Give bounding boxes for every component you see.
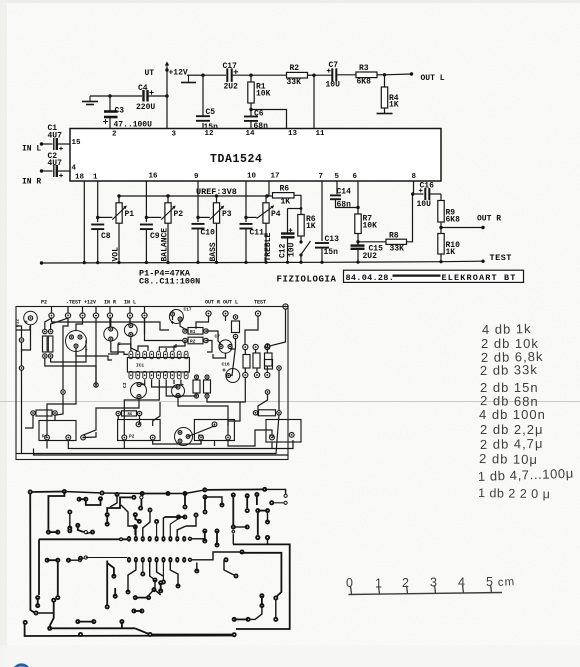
resistor R6 horizontal 1K bbox=[269, 195, 273, 197]
pcb2 pad row left mid2 bbox=[45, 558, 50, 563]
pcb2 trace K bbox=[57, 563, 59, 596]
svg-text:BASS: BASS bbox=[209, 242, 218, 261]
pcb1 pot P1 bbox=[39, 421, 76, 441]
wire ground to C3 node bbox=[90, 95, 110, 97]
wire R6 to R6 vertical bbox=[294, 195, 301, 214]
pcb2 bottom left pad bbox=[23, 620, 28, 625]
svg-text:4 db 100n: 4 db 100n bbox=[479, 407, 546, 422]
svg-text:OUT R: OUT R bbox=[205, 300, 220, 306]
wire P4 wiper tap bbox=[246, 216, 257, 218]
pcb2 extra pads C bbox=[67, 526, 72, 531]
wire pin 5 branch bbox=[336, 181, 338, 194]
svg-text:C5: C5 bbox=[206, 108, 216, 117]
pcb2 top mid pads bbox=[140, 491, 145, 496]
node R7 bottom bbox=[356, 240, 359, 243]
wire +12V vertical to pin 3 bbox=[166, 70, 168, 129]
pcb1 R5 part bbox=[122, 411, 137, 416]
pcb2 corner trace Q bbox=[50, 600, 54, 626]
svg-text:11: 11 bbox=[316, 130, 326, 138]
pcb1 cap can C1 bbox=[104, 327, 118, 341]
paper edge shading bbox=[0, 0, 7, 667]
capacitor C14 68n bbox=[330, 194, 341, 196]
pcb1 cap can C16 bbox=[226, 369, 240, 383]
svg-text:BALANCE: BALANCE bbox=[161, 228, 170, 262]
faint scanner fold line bbox=[0, 401, 580, 403]
svg-text:3: 3 bbox=[430, 576, 438, 590]
pcb2 pads X bbox=[158, 580, 163, 585]
wire pin 1 branch bbox=[97, 181, 99, 222]
svg-text:IN R: IN R bbox=[22, 178, 41, 187]
svg-text:OUT L: OUT L bbox=[421, 74, 445, 83]
svg-text:TREBLE: TREBLE bbox=[264, 232, 273, 261]
pcb2 outer ground trace bbox=[30, 491, 64, 494]
wire +12V to C5 node bbox=[187, 74, 203, 76]
pcb1 vertical part right bbox=[265, 360, 273, 370]
svg-text:17: 17 bbox=[271, 173, 280, 181]
pcb2 pads U bbox=[131, 609, 136, 614]
pcb1 pad row B bbox=[243, 372, 248, 377]
pcb2 pad S bbox=[78, 632, 83, 637]
pcb2 pad L bbox=[55, 595, 60, 600]
pcb2 pad P bbox=[111, 574, 116, 579]
potentiometer P3 bbox=[216, 196, 218, 203]
svg-text:3: 3 bbox=[172, 131, 177, 139]
pcb2 pad C bbox=[98, 496, 103, 501]
wire pin 18 to ground bus bbox=[83, 181, 85, 262]
svg-text:C3: C3 bbox=[122, 382, 128, 388]
svg-text:15: 15 bbox=[72, 139, 82, 147]
pcb2 top right trace bbox=[205, 488, 265, 491]
pcb2 pads M bbox=[35, 595, 40, 600]
pcb2 extra trace K bbox=[36, 612, 54, 614]
svg-text:+12V: +12V bbox=[84, 300, 96, 306]
pcb1 extra traces bbox=[16, 326, 30, 330]
pcb1 transistor can D bbox=[175, 428, 193, 446]
pcb1 traces bbox=[52, 318, 170, 330]
op-amp IC TDA1524 body bbox=[70, 129, 441, 182]
pcb1 cap can C3 bbox=[131, 383, 147, 399]
svg-text:1 db 2 2 0 μ: 1 db 2 2 0 μ bbox=[478, 486, 551, 501]
pcb1 capacitor C12 can bbox=[24, 311, 38, 325]
svg-text:2U2: 2U2 bbox=[363, 252, 378, 261]
pcb2 pads pair B bbox=[77, 497, 82, 502]
supply node UT +12V bbox=[165, 68, 168, 71]
svg-text:18: 18 bbox=[75, 174, 85, 182]
svg-text:OUT R: OUT R bbox=[477, 215, 501, 224]
svg-text:4U7: 4U7 bbox=[48, 132, 63, 141]
svg-text:P2: P2 bbox=[129, 434, 135, 440]
pcb2 extra trace J bbox=[232, 534, 234, 545]
svg-text:84.04.28.: 84.04.28. bbox=[346, 273, 395, 283]
wire P2 wiper tap bbox=[146, 216, 161, 218]
node +12V rail join bbox=[165, 94, 168, 97]
pcb2 nested loop inner bbox=[240, 553, 281, 596]
paper noise bbox=[0, 0, 1, 1]
wire pin 8 bbox=[413, 181, 415, 194]
svg-text:IN L: IN L bbox=[124, 300, 136, 306]
node R1 top bbox=[249, 74, 252, 77]
switch fiziologia bbox=[300, 236, 302, 241]
wire pin 11 vertical bbox=[313, 75, 315, 128]
pcb2 misc right pads bbox=[245, 525, 250, 530]
bus end node bbox=[40, 261, 43, 264]
pcb1 left mid pads bbox=[19, 338, 23, 342]
wire pin 16 branch bbox=[145, 181, 147, 222]
svg-text:-TEST: -TEST bbox=[66, 300, 81, 306]
wire pin 17 to bus bbox=[268, 181, 270, 196]
svg-text:C7: C7 bbox=[329, 61, 339, 70]
svg-text:C16: C16 bbox=[222, 362, 230, 368]
pcb2 extra pads A bbox=[90, 530, 95, 535]
svg-text:10K: 10K bbox=[363, 222, 378, 231]
svg-text:10U: 10U bbox=[288, 242, 297, 257]
terminal IN L bbox=[40, 142, 43, 145]
pcb2 pad T bbox=[119, 619, 124, 624]
node R4 top bbox=[377, 74, 385, 76]
svg-text:cm: cm bbox=[498, 576, 516, 589]
pcb2 pad I bbox=[133, 524, 138, 529]
svg-text:1K: 1K bbox=[446, 248, 456, 257]
svg-text:C12: C12 bbox=[279, 243, 288, 258]
resistor R3 6K8 bbox=[356, 72, 377, 78]
resistor R1 10K bbox=[250, 75, 252, 82]
blue pen mark bottom-left bbox=[13, 665, 30, 667]
chassis mark under +12V bbox=[188, 76, 190, 83]
svg-text:2 db 33k: 2 db 33k bbox=[480, 362, 538, 378]
ground R4 bbox=[377, 113, 393, 115]
potentiometer P1 bbox=[118, 196, 120, 203]
wire P1 wiper tap bbox=[98, 216, 113, 218]
pcb1 resistor R1 bbox=[188, 328, 203, 335]
pcb1 pot P3 bbox=[194, 420, 234, 441]
node OUT R bbox=[439, 226, 442, 229]
pcb1 transistor can bbox=[66, 331, 87, 352]
pcb2 extra pads D bbox=[153, 578, 158, 583]
pcb1 resistor pair bbox=[43, 336, 48, 352]
wire rail to R2 bbox=[251, 74, 287, 76]
pcb2 pads V bbox=[133, 595, 138, 600]
svg-text:2U2: 2U2 bbox=[224, 83, 239, 92]
svg-text:C13: C13 bbox=[325, 235, 340, 244]
svg-text:6K8: 6K8 bbox=[446, 216, 461, 225]
svg-text:P3: P3 bbox=[222, 210, 232, 219]
svg-text:10U: 10U bbox=[417, 200, 432, 209]
pcb2 pad top-a bbox=[62, 489, 67, 494]
capacitor C7 10U bbox=[314, 74, 332, 76]
svg-text:8: 8 bbox=[412, 173, 417, 181]
pcb2 trace long feed bbox=[39, 538, 127, 540]
svg-text:IN L: IN L bbox=[22, 145, 41, 154]
pcb2 pads R bbox=[75, 619, 80, 624]
node R1 bottom bbox=[249, 108, 252, 111]
pcb2 pad row mid-left bbox=[46, 530, 51, 535]
capacitor C8 100n bbox=[91, 224, 104, 226]
capacitor C12 10U bbox=[287, 209, 289, 233]
bus junction dots bbox=[83, 261, 86, 264]
svg-text:C9: C9 bbox=[150, 232, 160, 241]
pcb1 cap can C2 bbox=[124, 324, 137, 337]
svg-text:+12V: +12V bbox=[169, 69, 188, 78]
svg-text:FIZIOLOGIA: FIZIOLOGIA bbox=[277, 275, 337, 285]
svg-text:TEST: TEST bbox=[490, 253, 512, 263]
resistor R8 33K bbox=[358, 241, 386, 243]
pcb1 part above P1 bbox=[36, 410, 52, 416]
pcb2 traces from IC top pads bbox=[121, 505, 136, 536]
svg-text:P2: P2 bbox=[174, 210, 184, 219]
wire to OUT R bbox=[441, 227, 483, 229]
svg-text:VOL: VOL bbox=[112, 247, 121, 262]
svg-text:4: 4 bbox=[72, 165, 77, 173]
svg-text:10K: 10K bbox=[256, 90, 271, 99]
svg-text:4: 4 bbox=[458, 576, 466, 590]
pcb1 part above P4 bbox=[259, 410, 276, 416]
capacitor C9 100n bbox=[140, 224, 153, 226]
ruler ticks bbox=[351, 586, 352, 594]
pcb2 extra pads I bbox=[119, 537, 123, 541]
capacitor C1 4U7 bbox=[42, 143, 53, 145]
pcb1 cap can C17 bbox=[169, 310, 183, 324]
svg-text:2 db 4,7μ: 2 db 4,7μ bbox=[480, 436, 544, 452]
pcb2 right top pads bbox=[231, 493, 236, 498]
svg-text:C17: C17 bbox=[223, 62, 238, 71]
svg-text:6K8: 6K8 bbox=[357, 78, 372, 87]
wire P3 wiper tap bbox=[198, 216, 210, 218]
svg-text:C14: C14 bbox=[337, 188, 352, 197]
svg-text:R1: R1 bbox=[190, 329, 196, 335]
pcb1 IC bottom pads bbox=[129, 371, 133, 379]
pcb1 right edge pads bbox=[265, 344, 269, 348]
svg-text:C8..C11:100N: C8..C11:100N bbox=[139, 277, 200, 287]
wire pin 7 branch bbox=[321, 181, 323, 241]
ground symbol top-left bbox=[89, 96, 91, 101]
svg-text:P2: P2 bbox=[41, 300, 47, 306]
capacitor C13 15n bbox=[315, 242, 329, 244]
pcb2 pad O bbox=[113, 594, 118, 599]
svg-text:13: 13 bbox=[288, 130, 298, 138]
svg-text:16: 16 bbox=[149, 173, 159, 181]
pcb1 cap can small bbox=[172, 385, 185, 398]
wire pin 9 branch bbox=[197, 181, 199, 222]
pcb2 extra pads G bbox=[194, 569, 199, 574]
wire R1 bottom to pin 13 bbox=[251, 110, 287, 129]
node pin 8 bbox=[411, 192, 414, 195]
svg-text:P4: P4 bbox=[271, 210, 281, 219]
svg-text:TDA1524: TDA1524 bbox=[210, 153, 263, 166]
capacitor C10 100n bbox=[192, 223, 205, 225]
svg-text:5: 5 bbox=[486, 575, 494, 589]
terminal OUT L bbox=[410, 72, 413, 75]
svg-text:2: 2 bbox=[402, 576, 410, 590]
capacitor C4 220U bbox=[110, 95, 142, 97]
capacitor C3 47..100U bbox=[109, 96, 111, 111]
pcb1 resistor R2 bbox=[188, 337, 203, 344]
pcb2 top long trace link bbox=[64, 492, 142, 494]
svg-text:68n: 68n bbox=[337, 201, 352, 210]
pcb2 mid right pads bbox=[202, 529, 207, 534]
title box frame bbox=[344, 270, 524, 282]
title divider bar bbox=[393, 275, 441, 277]
svg-text:220U: 220U bbox=[136, 103, 155, 112]
pcb2 pads right mid bbox=[255, 508, 260, 513]
svg-text:33K: 33K bbox=[390, 245, 405, 254]
pcb2 pad top-left bbox=[28, 490, 33, 495]
capacitor C6 68n bbox=[250, 110, 252, 117]
wire to OUT L bbox=[385, 73, 412, 76]
svg-text:0: 0 bbox=[346, 576, 354, 590]
svg-text:C6: C6 bbox=[254, 110, 264, 119]
svg-text:OUT L: OUT L bbox=[223, 300, 238, 306]
pcb1 IC body bbox=[127, 358, 189, 373]
svg-text:TEST: TEST bbox=[254, 300, 266, 306]
resistor R7 10K bbox=[355, 214, 361, 234]
svg-text:P1: P1 bbox=[125, 210, 135, 219]
pcb2 nested loop outer bbox=[233, 544, 290, 629]
pcb2 IC pad row bottom bbox=[127, 557, 131, 563]
potentiometer P2 bbox=[167, 196, 169, 203]
pcb1 pot P4 bbox=[266, 420, 301, 443]
svg-text:7: 7 bbox=[319, 173, 324, 181]
resistor R4 1K bbox=[384, 75, 386, 87]
capacitor C17 2U2 bbox=[226, 68, 228, 82]
svg-text:R6: R6 bbox=[280, 185, 290, 194]
capacitor C16 10U bbox=[413, 193, 424, 195]
pcb2 trace inner top bbox=[48, 492, 64, 530]
pcb2 pad W bbox=[152, 587, 157, 592]
pcb2 bottom trace mid bbox=[135, 628, 233, 634]
svg-text:C8: C8 bbox=[101, 232, 111, 241]
svg-text:1: 1 bbox=[93, 174, 98, 182]
pcb2 extra pads F bbox=[126, 590, 131, 595]
svg-text:R2: R2 bbox=[290, 64, 300, 73]
pcb1 small parts right bbox=[243, 355, 250, 369]
resistor R6 vertical 1K bbox=[298, 215, 304, 237]
pcb2 loop pads bbox=[273, 596, 278, 601]
svg-text:C17: C17 bbox=[184, 307, 192, 313]
terminal IN R bbox=[40, 169, 43, 172]
potentiometer P4 bbox=[265, 196, 267, 203]
svg-text:2 db 10μ: 2 db 10μ bbox=[479, 451, 538, 467]
svg-text:14: 14 bbox=[246, 130, 256, 138]
pcb2 extra pads B bbox=[115, 492, 120, 497]
node pin 11 branch bbox=[308, 74, 315, 76]
svg-text:ELEKROART BT: ELEKROART BT bbox=[442, 273, 517, 283]
svg-text:1K: 1K bbox=[389, 101, 399, 110]
svg-text:UT: UT bbox=[145, 69, 155, 78]
pcb2 trace from IC bottom bbox=[128, 563, 136, 591]
wire UREF bus bbox=[118, 195, 269, 197]
svg-text:10U: 10U bbox=[326, 81, 341, 90]
svg-text:1K: 1K bbox=[306, 222, 316, 231]
svg-text:C16: C16 bbox=[420, 182, 435, 191]
svg-text:1: 1 bbox=[375, 577, 383, 591]
svg-text:R8: R8 bbox=[389, 232, 399, 241]
svg-text:9: 9 bbox=[194, 173, 199, 181]
pcb2 pads E vertical bbox=[105, 512, 110, 517]
pcb2 trace N vertical bbox=[106, 561, 108, 605]
node pin12 branch bbox=[201, 74, 204, 77]
svg-text:4 db 1k: 4 db 1k bbox=[482, 321, 532, 337]
capacitor C2 4U7 bbox=[42, 170, 53, 172]
svg-text:R2: R2 bbox=[190, 339, 196, 345]
capacitor C15 2U2 bbox=[351, 244, 365, 246]
wire pin 6 branch bbox=[357, 181, 359, 214]
pcb1 right connector pads bbox=[206, 311, 211, 316]
wire C12 top link bbox=[288, 208, 302, 210]
pcb1 mid small rects bbox=[193, 380, 200, 393]
terminal OUT R bbox=[481, 226, 484, 229]
wire R8 to pin 8 node bbox=[407, 194, 413, 242]
svg-text:IC1: IC1 bbox=[136, 363, 144, 369]
pcb2 IC pad row top bbox=[127, 536, 131, 542]
wire ground bus bbox=[42, 261, 484, 263]
svg-text:C11: C11 bbox=[250, 229, 265, 238]
svg-text:2: 2 bbox=[112, 131, 117, 139]
pcb2 pads D bbox=[75, 523, 80, 528]
capacitor C11 100n bbox=[240, 223, 253, 225]
svg-text:C3: C3 bbox=[115, 107, 125, 116]
svg-text:6: 6 bbox=[353, 173, 358, 181]
svg-text:C10: C10 bbox=[201, 229, 216, 238]
svg-text:R5: R5 bbox=[128, 413, 133, 417]
svg-text:15n: 15n bbox=[324, 248, 339, 257]
node C3 top bbox=[108, 94, 111, 97]
wire pin 10 branch bbox=[245, 181, 247, 222]
pcb1 IC top pads bbox=[129, 351, 133, 359]
pcb1 board outline bbox=[16, 307, 288, 460]
svg-text:R3: R3 bbox=[359, 64, 369, 73]
resistor R2 33K bbox=[287, 72, 308, 78]
pcb2 trace to right block bbox=[190, 552, 240, 560]
svg-text:4U7: 4U7 bbox=[48, 159, 63, 168]
pcb2 pad F bbox=[131, 495, 136, 500]
svg-text:33K: 33K bbox=[287, 78, 302, 87]
svg-text:IN R: IN R bbox=[104, 300, 116, 306]
pcb2 pads H bbox=[133, 512, 138, 517]
capacitor C5 15n bbox=[202, 75, 204, 115]
pcb1 pot P2 bbox=[118, 420, 161, 441]
svg-text:C4: C4 bbox=[138, 84, 148, 93]
pcb1 vertical part bbox=[232, 321, 240, 333]
pcb2 extra pads E bbox=[176, 584, 181, 589]
svg-text:2 db 2,2μ: 2 db 2,2μ bbox=[480, 422, 543, 437]
wire C5 rail to C17 bbox=[203, 74, 226, 76]
ruler baseline bbox=[349, 593, 503, 595]
svg-text:10: 10 bbox=[247, 173, 257, 181]
svg-text:C7: C7 bbox=[215, 334, 221, 340]
pcb2 mid connection traces bbox=[86, 557, 127, 559]
svg-text:1K: 1K bbox=[281, 198, 291, 207]
pcb1 cap can C7 bbox=[219, 340, 232, 353]
pcb1 pad row A bbox=[243, 344, 248, 349]
resistor R9 6K8 bbox=[440, 194, 442, 201]
svg-text:12: 12 bbox=[205, 130, 215, 138]
pcb2 extra pads H bbox=[188, 537, 192, 541]
resistor R10 1K bbox=[438, 234, 444, 255]
terminal TEST bbox=[481, 260, 484, 263]
svg-text:5: 5 bbox=[335, 173, 340, 181]
pcb1 top connector pads bbox=[49, 313, 54, 318]
pcb2 pad G bbox=[138, 506, 143, 511]
